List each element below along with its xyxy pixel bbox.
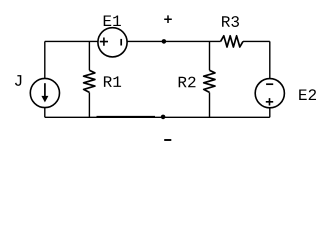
- current source J arrow: [44, 83, 46, 97]
- wire R2 bottom lead: [209, 93, 211, 118]
- wire bottom thick segment: [97, 116, 156, 118]
- voltage source E2 circle: [255, 79, 284, 108]
- label J: [15, 75, 21, 86]
- E1 minus bar (rotated): [120, 39, 122, 46]
- resistor R2 zigzag: [204, 70, 215, 92]
- E2 plus sign: [266, 98, 273, 105]
- node dot top: [162, 39, 167, 44]
- resistor R1 zigzag: [84, 70, 95, 92]
- label R2: [179, 77, 196, 88]
- node dot bottom: [161, 115, 166, 120]
- node + label top: [164, 15, 172, 23]
- voltage source E1 circle: [98, 28, 127, 57]
- E2 minus bar: [266, 83, 273, 85]
- wire left vertical upper: [44, 41, 46, 78]
- wire R1 bottom lead: [88, 93, 90, 118]
- wire left vertical lower: [44, 108, 46, 118]
- wire top-right (R3 right to corner): [243, 40, 270, 42]
- wire right vertical upper: [269, 41, 271, 78]
- label R1: [104, 76, 121, 87]
- label R3: [222, 16, 239, 27]
- wire top middle (E1 right to R3 left): [127, 40, 221, 42]
- wire R2 top lead: [209, 41, 211, 70]
- wire top-left horizontal: [45, 40, 98, 42]
- current source J circle: [30, 78, 59, 107]
- label E2: [299, 89, 316, 100]
- wire right vertical lower: [269, 108, 271, 118]
- wire R1 top lead: [88, 41, 90, 70]
- resistor R3 zigzag: [221, 36, 243, 47]
- wire bottom horizontal: [45, 116, 270, 118]
- label E1: [104, 15, 121, 26]
- E1 plus sign: [100, 38, 108, 46]
- node - label bottom: [164, 139, 171, 141]
